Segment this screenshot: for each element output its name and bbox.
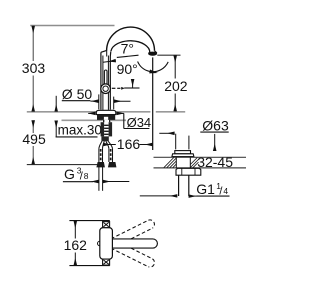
extension lines base diameter [98, 94, 100, 109]
dimension 202 [174, 55, 176, 111]
svg-text:8: 8 [84, 171, 89, 181]
drain cap brim [172, 154, 194, 157]
hose end reference line [27, 164, 98, 166]
svg-text:303: 303 [22, 60, 46, 76]
drain counter lines [154, 156, 247, 158]
handle pivot circle [101, 84, 111, 94]
faucet body [101, 50, 111, 110]
7 degree leader arrow [103, 61, 116, 63]
small up arrow under 90 [132, 79, 134, 88]
lever handle rod [104, 70, 107, 86]
hose end fitting left [96, 162, 105, 167]
svg-text:32-45: 32-45 [197, 154, 233, 170]
spout inner arc [111, 41, 150, 53]
top view swivel arm upper dashed [111, 220, 154, 247]
svg-text:166: 166 [117, 136, 141, 152]
drain right arrow line [214, 134, 216, 151]
hose end fitting right [108, 162, 117, 167]
drain cap extension lines [175, 134, 177, 150]
dimension 303 [32, 26, 34, 112]
counter hatching [164, 158, 199, 168]
supply hose left [98, 149, 100, 162]
outlet vertical extension line [152, 57, 154, 150]
svg-text:162: 162 [64, 237, 88, 253]
extension line from outlet [157, 54, 180, 56]
top view top tab [103, 222, 110, 228]
drain locknut [176, 168, 201, 175]
svg-text:max.30: max.30 [58, 122, 102, 137]
hose connection block [101, 136, 108, 141]
svg-text:G: G [64, 166, 75, 182]
threaded shank [101, 122, 105, 136]
top reference line [30, 25, 114, 27]
supply hose right [108, 149, 110, 162]
counter bottom line [62, 119, 127, 121]
svg-text:Ø63: Ø63 [202, 117, 229, 133]
drain tailpipe [178, 175, 180, 196]
svg-text:G1: G1 [196, 181, 215, 197]
top view spout bar [112, 239, 157, 248]
svg-text:495: 495 [22, 131, 46, 147]
svg-text:202: 202 [164, 78, 188, 94]
label diameter 34 [123, 113, 125, 128]
hose extension lines [98, 167, 100, 191]
drain cap crown [175, 151, 191, 154]
base flange [96, 110, 116, 114]
dimension 166 [103, 144, 116, 146]
dimension 162 [69, 220, 109, 222]
svg-text:7°: 7° [121, 40, 134, 56]
top view body [100, 228, 113, 260]
top view swivel arm lower dashed [111, 240, 154, 267]
handle dashes [112, 87, 116, 89]
top view bottom tab [103, 259, 110, 265]
flange base ring [97, 115, 115, 120]
thread label G1 1/4 [140, 195, 178, 197]
90 degree arc [150, 62, 169, 72]
counter top line [27, 111, 185, 113]
dimension 495 [32, 120, 34, 164]
svg-text:4: 4 [223, 186, 228, 196]
svg-text:Ø 50: Ø 50 [62, 86, 93, 102]
shank stems [103, 120, 105, 122]
svg-text:Ø34: Ø34 [127, 115, 152, 130]
spout outer arc [107, 27, 155, 51]
drain body in counter [175, 157, 177, 168]
spout outlet tip [149, 51, 157, 53]
svg-text:90°: 90° [117, 61, 138, 77]
dimension max.30 [55, 96, 57, 112]
hose branch curves [99, 141, 113, 148]
top view left nub [98, 241, 102, 245]
7 degree tilted line [117, 55, 139, 57]
